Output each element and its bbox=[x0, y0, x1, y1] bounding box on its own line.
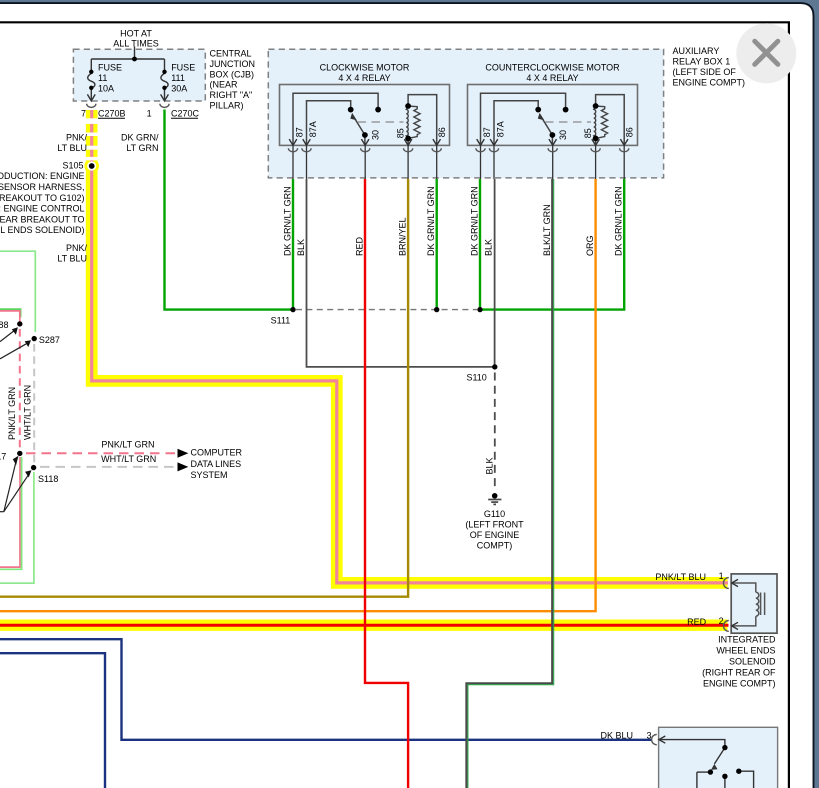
svg-text:WHEEL ENDS: WHEEL ENDS bbox=[716, 646, 775, 656]
svg-text:: ENGINE CONTROL: : ENGINE CONTROL bbox=[0, 204, 85, 214]
svg-text:30: 30 bbox=[370, 130, 380, 140]
svg-text:PNK/LT BLU: PNK/LT BLU bbox=[655, 572, 706, 582]
svg-text:DK BLU: DK BLU bbox=[600, 731, 633, 741]
svg-text:10A: 10A bbox=[98, 84, 114, 94]
svg-text:LT BLU: LT BLU bbox=[57, 143, 87, 153]
svg-text:S287: S287 bbox=[39, 335, 60, 345]
svg-text:30A: 30A bbox=[171, 84, 187, 94]
svg-text:30: 30 bbox=[558, 130, 568, 140]
svg-text:EAR BREAKOUT TO: EAR BREAKOUT TO bbox=[0, 214, 85, 224]
svg-text:(LEFT FRONT: (LEFT FRONT bbox=[465, 520, 524, 530]
svg-text:87: 87 bbox=[294, 127, 304, 137]
svg-text:BOX (CJB): BOX (CJB) bbox=[210, 69, 255, 79]
svg-text:G110: G110 bbox=[484, 509, 505, 519]
svg-text:(NEAR: (NEAR bbox=[210, 80, 239, 90]
svg-text:COUNTERCLOCKWISE MOTOR: COUNTERCLOCKWISE MOTOR bbox=[485, 63, 620, 73]
svg-text:3: 3 bbox=[646, 731, 651, 741]
svg-text:(LEFT SIDE OF: (LEFT SIDE OF bbox=[673, 67, 737, 77]
svg-text:2: 2 bbox=[719, 616, 724, 626]
svg-text:S110: S110 bbox=[466, 372, 486, 382]
svg-text:LT GRN: LT GRN bbox=[126, 143, 158, 153]
svg-text:PNK/LT GRN: PNK/LT GRN bbox=[101, 440, 154, 450]
svg-text:C270C: C270C bbox=[171, 108, 200, 118]
svg-text:C270B: C270B bbox=[98, 108, 126, 118]
svg-text:ENGINE COMPT): ENGINE COMPT) bbox=[673, 77, 746, 87]
svg-text:PNK/: PNK/ bbox=[66, 133, 88, 143]
svg-text:CLOCKWISE MOTOR: CLOCKWISE MOTOR bbox=[320, 63, 410, 73]
svg-text:ORG: ORG bbox=[585, 235, 595, 256]
svg-text:COMPT): COMPT) bbox=[477, 541, 513, 551]
svg-text:DATA LINES: DATA LINES bbox=[191, 459, 242, 469]
svg-text:1: 1 bbox=[719, 571, 724, 581]
svg-text:BLK: BLK bbox=[296, 239, 306, 256]
svg-text:OF ENGINE: OF ENGINE bbox=[470, 530, 520, 540]
svg-text:7: 7 bbox=[81, 108, 86, 118]
svg-text:DK GRN/LT GRN: DK GRN/LT GRN bbox=[283, 186, 293, 256]
svg-text:HOT AT: HOT AT bbox=[120, 28, 152, 38]
svg-text:SENSOR HARNESS,: SENSOR HARNESS, bbox=[0, 182, 85, 192]
svg-text:(RIGHT REAR OF: (RIGHT REAR OF bbox=[702, 668, 776, 678]
svg-text:BRN/YEL: BRN/YEL bbox=[398, 217, 408, 256]
svg-text:DK GRN/: DK GRN/ bbox=[121, 133, 159, 143]
svg-text:WHT/LT GRN: WHT/LT GRN bbox=[101, 454, 156, 464]
svg-text:LT BLU: LT BLU bbox=[57, 254, 87, 264]
svg-text:87A: 87A bbox=[496, 121, 506, 137]
svg-text:1: 1 bbox=[147, 108, 152, 118]
svg-text:SYSTEM: SYSTEM bbox=[191, 470, 228, 480]
svg-text:17: 17 bbox=[0, 451, 6, 461]
svg-text:111: 111 bbox=[171, 73, 185, 83]
svg-text:FUSE: FUSE bbox=[171, 63, 195, 73]
svg-text:RED: RED bbox=[687, 617, 707, 627]
svg-text:ENGINE COMPT): ENGINE COMPT) bbox=[703, 679, 776, 689]
svg-text:RIGHT "A": RIGHT "A" bbox=[210, 90, 253, 100]
svg-text:REAKOUT TO G102): REAKOUT TO G102) bbox=[0, 193, 85, 203]
svg-text:S118: S118 bbox=[38, 474, 58, 484]
svg-text:S111: S111 bbox=[271, 316, 291, 326]
svg-text:FUSE: FUSE bbox=[98, 63, 122, 73]
svg-text:87: 87 bbox=[482, 127, 492, 137]
svg-text:BLK: BLK bbox=[484, 457, 494, 474]
svg-text:DK GRN/LT GRN: DK GRN/LT GRN bbox=[614, 186, 624, 256]
svg-text:INTEGRATED: INTEGRATED bbox=[718, 635, 776, 645]
svg-text:S105: S105 bbox=[62, 161, 83, 171]
svg-text:86: 86 bbox=[624, 127, 634, 137]
svg-text:11: 11 bbox=[98, 73, 107, 83]
svg-text:BLK: BLK bbox=[484, 239, 494, 256]
svg-text:RELAY BOX 1: RELAY BOX 1 bbox=[673, 56, 731, 66]
svg-text:ODUCTION: ENGINE: ODUCTION: ENGINE bbox=[0, 171, 85, 181]
svg-text:4 X 4 RELAY: 4 X 4 RELAY bbox=[338, 73, 390, 83]
svg-text:CENTRAL: CENTRAL bbox=[210, 49, 252, 59]
svg-text:86: 86 bbox=[437, 127, 447, 137]
svg-text:EL ENDS SOLENOID): EL ENDS SOLENOID) bbox=[0, 225, 85, 235]
svg-text:JUNCTION: JUNCTION bbox=[210, 59, 256, 69]
svg-text:PNK/LT GRN: PNK/LT GRN bbox=[7, 387, 17, 440]
svg-text:85: 85 bbox=[583, 128, 593, 138]
svg-text:RED: RED bbox=[355, 236, 365, 256]
svg-text:BLK/LT GRN: BLK/LT GRN bbox=[542, 204, 552, 256]
svg-text:DK GRN/LT GRN: DK GRN/LT GRN bbox=[426, 186, 436, 256]
svg-text:PNK/: PNK/ bbox=[66, 243, 88, 253]
svg-text:4 X 4 RELAY: 4 X 4 RELAY bbox=[526, 73, 578, 83]
svg-text:88: 88 bbox=[0, 320, 9, 330]
svg-text:WHT/LT GRN: WHT/LT GRN bbox=[23, 385, 33, 440]
svg-text:85: 85 bbox=[395, 128, 405, 138]
svg-text:SOLENOID: SOLENOID bbox=[729, 657, 776, 667]
svg-text:DK GRN/LT GRN: DK GRN/LT GRN bbox=[470, 186, 480, 256]
svg-text:ALL TIMES: ALL TIMES bbox=[113, 39, 159, 49]
svg-text:AUXILIARY: AUXILIARY bbox=[673, 46, 720, 56]
svg-text:COMPUTER: COMPUTER bbox=[191, 448, 243, 458]
svg-text:87A: 87A bbox=[308, 121, 318, 137]
svg-text:PILLAR): PILLAR) bbox=[210, 101, 244, 111]
